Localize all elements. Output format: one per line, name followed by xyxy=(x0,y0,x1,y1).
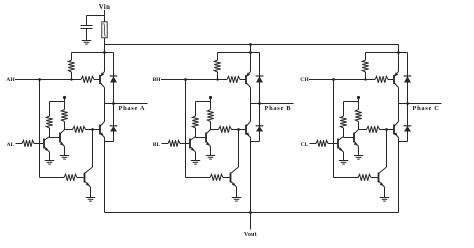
svg-text:Phase C: Phase C xyxy=(413,105,440,112)
svg-text:BH: BH xyxy=(152,77,161,83)
svg-text:AH: AH xyxy=(6,77,15,83)
svg-text:CH: CH xyxy=(300,77,309,83)
svg-text:CL: CL xyxy=(301,142,309,148)
svg-text:Vout: Vout xyxy=(244,232,257,238)
svg-text:Vin: Vin xyxy=(99,4,111,11)
svg-text:Phase B: Phase B xyxy=(265,105,292,112)
svg-text:BL: BL xyxy=(153,142,161,148)
svg-text:AL: AL xyxy=(7,142,15,148)
svg-text:Phase A: Phase A xyxy=(119,105,146,112)
